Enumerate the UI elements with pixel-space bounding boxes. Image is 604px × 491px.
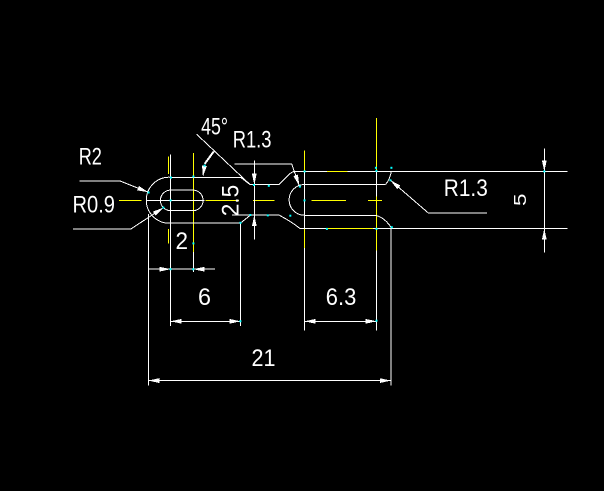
dim 2 line y=267.9 <box>149 268 215 270</box>
svg-text:2: 2 <box>176 228 189 255</box>
cyan snap dots <box>148 165 546 323</box>
svg-text:R1.3: R1.3 <box>233 127 272 154</box>
vertical centerline x=193.4 (inner slot right arc center) <box>192 153 194 252</box>
arrow R2 <box>137 186 149 195</box>
svg-text:6: 6 <box>198 284 211 311</box>
arrowheads <box>137 161 547 384</box>
dim 5 line vertical x=544.3 <box>543 149 545 253</box>
R0.9 leader <box>73 208 163 229</box>
part outline: left eye <box>146 172 391 229</box>
eye top 45 deg chamfer <box>241 177 251 184</box>
svg-text:R0.9: R0.9 <box>73 192 116 219</box>
svg-text:5: 5 <box>510 194 530 207</box>
arrow 45deg chamfer <box>201 166 207 178</box>
extension vertical x=148.3 (dim 21 left) <box>147 214 149 386</box>
svg-text:21: 21 <box>252 345 276 372</box>
R2 leader <box>79 181 148 192</box>
fork slot top right corner arc R1.3 <box>386 172 392 185</box>
arrows dim 2.5 <box>252 174 257 185</box>
eye bottom 45 deg chamfer <box>241 215 251 223</box>
yellow segment on fork top edge <box>327 171 348 173</box>
fork slot top edge <box>305 183 386 185</box>
fork top edge <box>295 171 568 173</box>
white center/extension vertical x=170.6 <box>170 154 172 326</box>
svg-text:R1.3: R1.3 <box>444 175 488 202</box>
eye top edge <box>169 176 240 178</box>
fork slot bottom edge <box>305 214 376 216</box>
white extension vertical x=376.4 <box>375 171 377 197</box>
neck bottom edge + 2.5 ext stub <box>232 214 279 216</box>
fork slot bottom right fillet <box>376 215 392 228</box>
neck top chamfer 45 deg to fork <box>279 172 295 185</box>
eye bottom edge <box>169 222 240 224</box>
dim 6.3 line y=321.3 <box>305 320 377 322</box>
arrows dim 6.3 <box>305 319 316 324</box>
horizontal centerline dashes y=200.4 <box>119 200 142 202</box>
fork slot left arc R1.3 <box>289 185 304 216</box>
45deg leader diagonal <box>197 134 250 184</box>
svg-text:R2: R2 <box>79 144 102 171</box>
leaders (white diagonals) <box>73 134 487 229</box>
arrows dim 21 <box>148 378 159 383</box>
svg-text:2.5: 2.5 <box>218 185 245 217</box>
dim 2.5 line vertical x=254.3 <box>253 161 255 240</box>
45deg leader streak <box>205 151 214 164</box>
extension vertical x=390.9 (dim 21 right) <box>390 229 392 386</box>
arrow R0.9 <box>153 206 165 216</box>
white vertical edge/extension x=304.5 <box>304 172 306 230</box>
vertical centerline x=168.6 (eye arc center) <box>168 156 170 174</box>
arrows dim 5 <box>542 161 547 172</box>
R1.3 left leader <box>235 164 300 186</box>
arrows dim 6 <box>171 319 182 324</box>
dim 21 line y=380.6 <box>148 380 391 382</box>
arrow R1.3 left <box>293 175 301 187</box>
arrows dim 2 <box>160 267 171 272</box>
fork bottom edge <box>300 228 568 230</box>
yellow centerlines <box>119 118 382 252</box>
eye outer left arc R2 <box>146 177 169 223</box>
yellow overlay segments on fork edges <box>327 172 373 229</box>
vertical centerline x=376.4 <box>375 118 377 171</box>
eye inner slot R0.9 <box>160 190 203 211</box>
svg-text:45°: 45° <box>201 114 228 141</box>
svg-text:6.3: 6.3 <box>326 284 357 311</box>
white extension vertical x=240.5 (dim 6 right) <box>240 223 242 326</box>
neck top edge <box>250 184 279 186</box>
R1.3 right leader <box>390 180 487 213</box>
neck bottom fillet to fork bottom <box>279 215 300 228</box>
white center cross overlay horizontal (eye) <box>146 200 204 202</box>
vertical centerline x=304.5 (fork slot center) <box>304 151 306 172</box>
yellow segment on fork bottom edge <box>327 228 373 230</box>
white extension vertical x=193.4 (dim 2 right) <box>192 252 194 272</box>
dim 6 line y=321.3 <box>171 320 241 322</box>
arrow R1.3 right <box>389 178 400 189</box>
